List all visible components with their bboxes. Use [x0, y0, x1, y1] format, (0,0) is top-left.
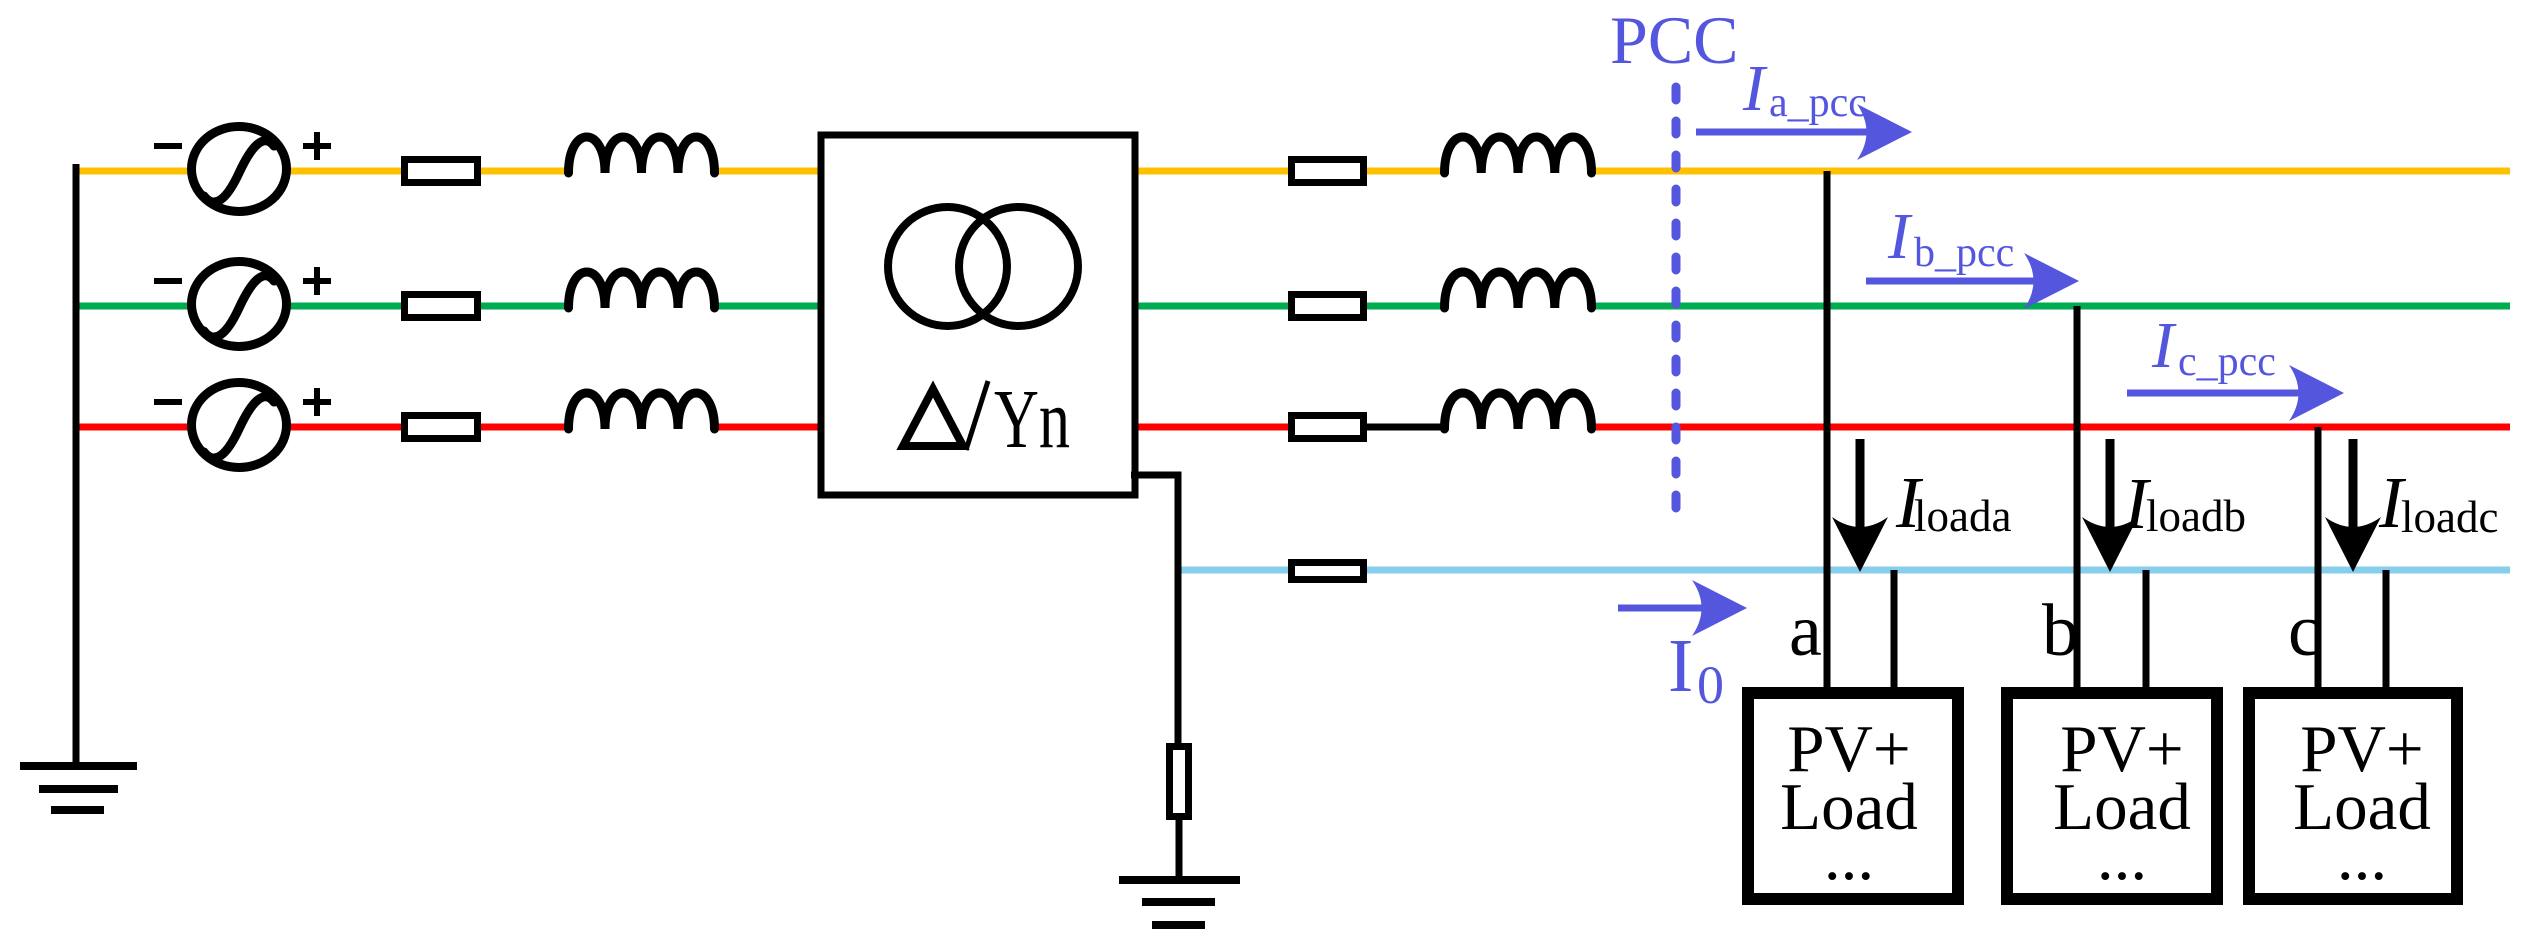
- wire neutral stub from transformer: [1131, 475, 1178, 748]
- svg-text:PCC: PCC: [1610, 2, 1739, 78]
- resistor Rn right: [1292, 563, 1364, 580]
- load box1 PV+Load a: [1748, 693, 1958, 899]
- resistor Rn vertical: [1170, 747, 1189, 817]
- svg-text:...: ...: [2337, 820, 2387, 894]
- svg-text:I: I: [1742, 52, 1768, 125]
- inductor La left: [569, 137, 715, 173]
- resistor Rb left: [405, 295, 478, 318]
- source Vb: [192, 262, 287, 347]
- svg-text:a: a: [1789, 590, 1822, 672]
- neutral tap box3: [2383, 570, 2390, 687]
- wire black segment red phase: [1364, 424, 1445, 431]
- source Va: [192, 127, 287, 212]
- load box2 PV+Load b: [2007, 693, 2217, 899]
- svg-text:loadc: loadc: [2401, 492, 2498, 542]
- arrow Iloadb: [2082, 439, 2138, 572]
- svg-text:0: 0: [1697, 655, 1724, 715]
- resistor Rb right: [1292, 295, 1364, 318]
- inductor Lb right: [1445, 272, 1592, 308]
- node b tap: [2074, 306, 2081, 687]
- wire phase A (yellow): [76, 168, 2510, 175]
- arrow Ic_pcc: [2127, 365, 2344, 421]
- svg-text:I: I: [1887, 200, 1913, 273]
- minus label Va: [154, 143, 182, 149]
- svg-text:I: I: [2151, 309, 2177, 382]
- minus label Vc: [154, 399, 182, 405]
- svg-text:...: ...: [1824, 820, 1874, 894]
- wire phase B (green): [76, 303, 2510, 310]
- inductor Lb left: [569, 272, 715, 308]
- PCC dashed line: [1672, 87, 1681, 520]
- node a tap: [1824, 171, 1831, 687]
- wire neutral (cyan): [1178, 567, 2510, 574]
- inductor La right: [1445, 137, 1592, 173]
- arrow I0: [1618, 580, 1747, 636]
- transformer T1 label Delta/Yn: [903, 373, 1070, 466]
- transformer T1 secondary circle: [959, 207, 1078, 326]
- ground left: [20, 766, 137, 810]
- svg-text:c_pcc: c_pcc: [2178, 339, 2276, 385]
- wire gaps under inductors: [566, 163, 1593, 436]
- ground neutral: [1119, 880, 1240, 925]
- transformer T1 box: [821, 135, 1135, 495]
- inductor Lc right: [1445, 393, 1592, 429]
- transformer T1 primary circle: [888, 207, 1007, 326]
- arrow Ia_pcc: [1696, 104, 1912, 160]
- plus label Vb: [303, 267, 331, 295]
- svg-text:I: I: [1668, 624, 1693, 708]
- minus label Vb: [154, 278, 182, 284]
- wire phase C (red): [76, 424, 2510, 431]
- neutral tap box2: [2143, 570, 2150, 687]
- svg-text:c: c: [2288, 590, 2321, 672]
- inductor Lc left: [569, 393, 715, 429]
- svg-text:...: ...: [2097, 820, 2147, 894]
- svg-text:loadb: loadb: [2146, 491, 2246, 541]
- wire resistor to ground: [1176, 817, 1183, 880]
- arrow Ib_pcc: [1866, 253, 2079, 309]
- wire left ground bus: [73, 164, 80, 766]
- svg-text:a_pcc: a_pcc: [1769, 80, 1867, 126]
- arrow Iloadc: [2325, 439, 2381, 572]
- svg-text:loada: loada: [1914, 491, 2011, 541]
- svg-text:Yn: Yn: [994, 373, 1070, 466]
- source Vc: [192, 383, 287, 468]
- resistor Rc left: [405, 416, 478, 439]
- arrow Iloada: [1832, 439, 1888, 572]
- resistor Ra right: [1292, 160, 1364, 183]
- node c tap: [2315, 427, 2322, 687]
- svg-text:b: b: [2042, 590, 2079, 672]
- resistor Rc right: [1292, 416, 1364, 439]
- resistor Ra left: [405, 160, 478, 183]
- plus label Vc: [303, 388, 331, 416]
- plus label Va: [303, 132, 331, 160]
- load box3 PV+Load c: [2249, 693, 2457, 899]
- neutral tap box1: [1891, 570, 1898, 687]
- svg-text:b_pcc: b_pcc: [1914, 230, 2014, 276]
